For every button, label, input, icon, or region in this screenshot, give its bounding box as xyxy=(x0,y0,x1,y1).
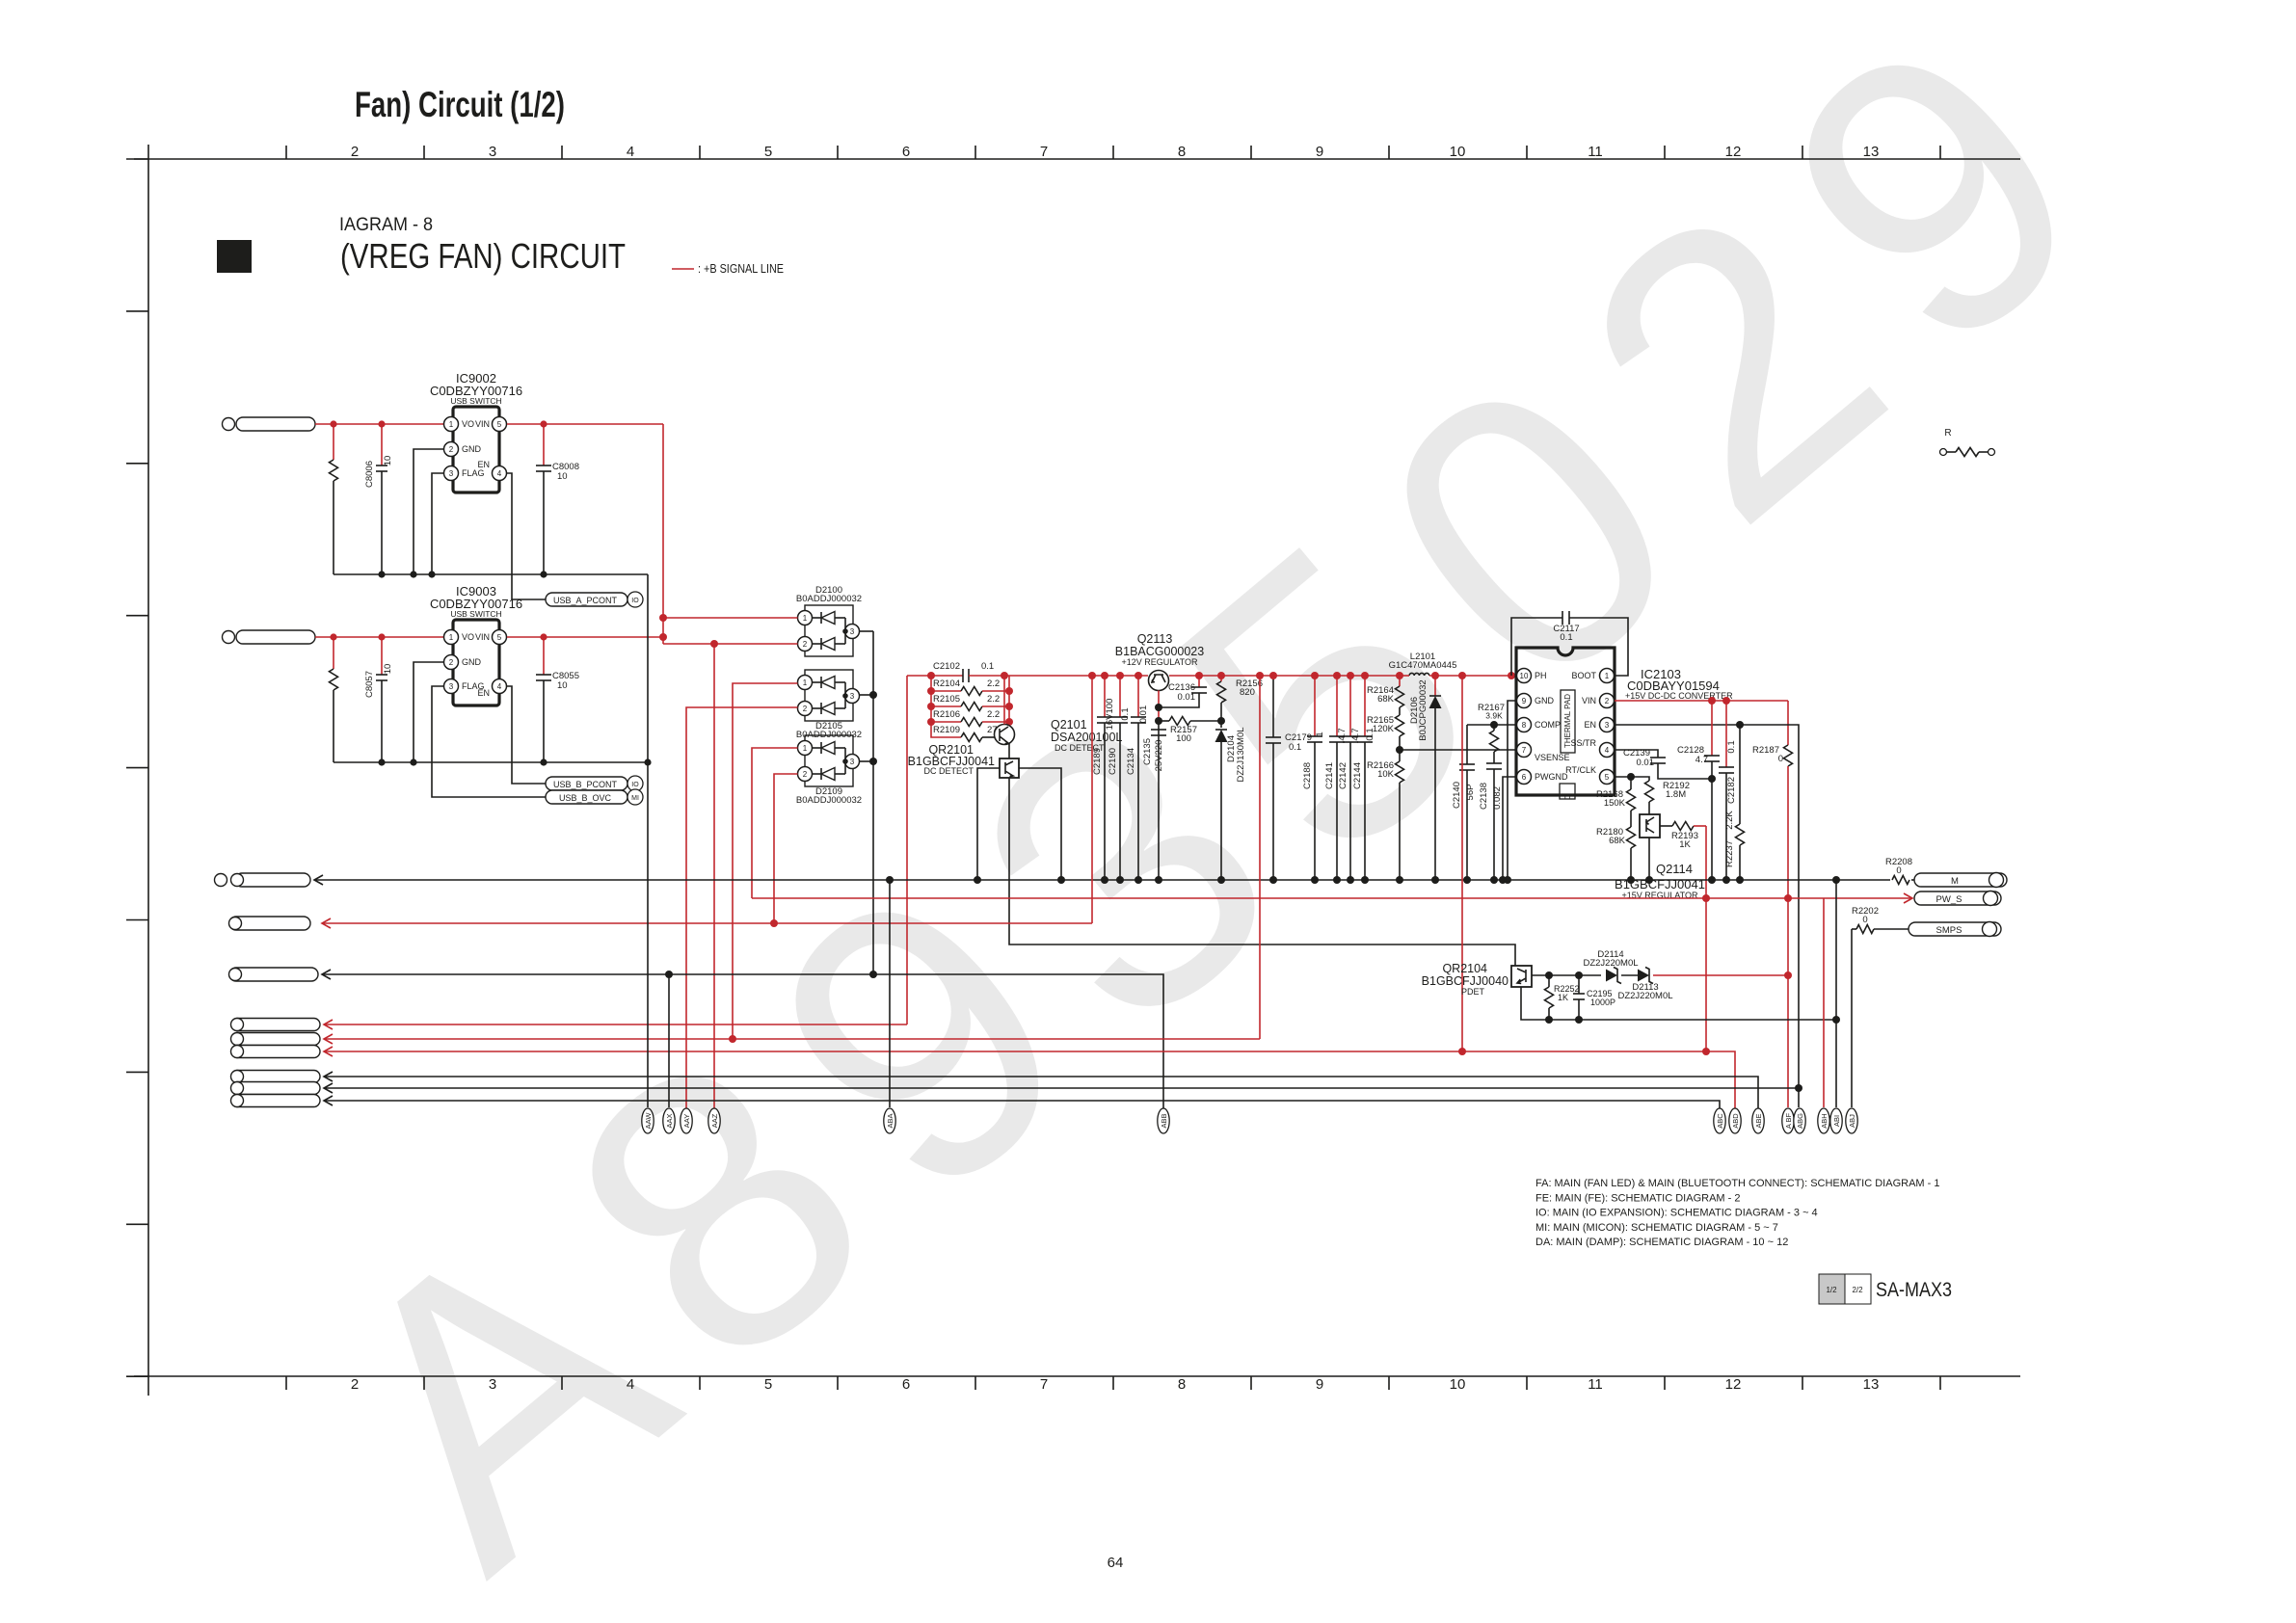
wire IC9002 pin2 GND down xyxy=(414,449,443,574)
svg-text:VIN: VIN xyxy=(1582,696,1596,705)
svg-text:ABH: ABH xyxy=(1820,1113,1829,1128)
svg-text:C8057: C8057 xyxy=(364,671,375,698)
svg-text:AAZ: AAZ xyxy=(710,1113,719,1128)
capacitor C2190 xyxy=(1119,676,1121,717)
svg-text:MI: MAIN (MICON): SCHEMATIC DI: MI: MAIN (MICON): SCHEMATIC DIAGRAM - 5 … xyxy=(1535,1222,1778,1234)
IC9003 pin 5 VIN xyxy=(493,630,507,645)
wire row 1078 red xyxy=(324,1034,333,1044)
node C8008 xyxy=(540,420,547,427)
wire rail to PH pin xyxy=(1455,675,1516,677)
svg-text:ABI: ABI xyxy=(1832,1115,1841,1127)
inductor L2101 xyxy=(1409,673,1429,676)
node bus 1364 xyxy=(1311,876,1319,884)
svg-text:USB_B_OVC: USB_B_OVC xyxy=(559,793,612,803)
svg-text:2: 2 xyxy=(449,658,454,667)
svg-text:0.1: 0.1 xyxy=(981,661,994,672)
node bus 1559 xyxy=(1499,876,1507,884)
svg-text:6: 6 xyxy=(902,144,910,160)
svg-text:FE: MAIN (FE): SCHEMATIC DIAGR: FE: MAIN (FE): SCHEMATIC DIAGRAM - 2 xyxy=(1535,1192,1740,1204)
op-amp U IC2103 body xyxy=(1516,648,1615,795)
node R2156 R2157 xyxy=(1217,717,1225,725)
svg-text:PWGND: PWGND xyxy=(1535,772,1568,782)
connector pill PW_S xyxy=(1914,891,2001,905)
svg-text:2/2: 2/2 xyxy=(1852,1286,1863,1294)
svg-text:DA: MAIN (DAMP): SCHEMATIC DIA: DA: MAIN (DAMP): SCHEMATIC DIAGRAM - 10 … xyxy=(1535,1237,1788,1248)
svg-text:SA-MAX3: SA-MAX3 xyxy=(1876,1279,1952,1301)
wire row A riser xyxy=(1091,676,1093,923)
svg-text:2.2: 2.2 xyxy=(987,694,1000,705)
wire QR2101 emitter to QR2104 xyxy=(1009,778,1515,966)
IC9002 ground bus xyxy=(334,573,648,575)
node C2141 rail xyxy=(1333,672,1341,679)
wire VIN riser to PW_S xyxy=(1787,701,1789,745)
resistor R2180 xyxy=(1627,827,1636,848)
wire IC9003 pin5 VIN from +B xyxy=(507,636,663,638)
svg-text:4: 4 xyxy=(497,682,502,691)
svg-text:9: 9 xyxy=(1316,1376,1323,1393)
capacitor C8006 xyxy=(381,424,383,466)
node bus 1522 xyxy=(1463,876,1471,884)
svg-text:VIN: VIN xyxy=(475,419,490,429)
node row 1011 diode bus xyxy=(869,971,877,978)
svg-text:0: 0 xyxy=(1862,915,1867,925)
svg-text:3: 3 xyxy=(850,692,855,701)
tag ABE xyxy=(1752,1108,1764,1133)
capacitor C2141 xyxy=(1336,676,1338,736)
node RT/CLK xyxy=(1627,773,1635,781)
wire IC9002 pin3 FLAG down xyxy=(432,473,443,574)
svg-text:3: 3 xyxy=(449,682,454,691)
svg-text:C2190: C2190 xyxy=(1108,748,1118,775)
svg-text:4.7: 4.7 xyxy=(1695,755,1708,765)
tag AAY xyxy=(681,1108,692,1133)
svg-text:R2237: R2237 xyxy=(1724,840,1735,867)
node bus 1805 xyxy=(1736,876,1744,884)
capacitor C8057 xyxy=(381,637,383,675)
IC2103 pin 1 BOOT xyxy=(1600,669,1615,683)
IC9003 ground bus xyxy=(334,761,648,763)
black square marker xyxy=(217,240,252,273)
wire ABI riser xyxy=(1835,880,1837,1107)
svg-text:C8006: C8006 xyxy=(364,461,375,488)
wire VBUS-B to IC9003 pin1 xyxy=(315,636,443,638)
node bus 1711 xyxy=(1645,876,1653,884)
capacitor C2189 xyxy=(1104,676,1106,717)
node gnd C8006 xyxy=(378,571,385,577)
svg-text:3: 3 xyxy=(850,627,855,636)
svg-text:68K: 68K xyxy=(1377,694,1395,705)
resistor R2192 xyxy=(1631,777,1649,781)
connector pill row 1117 xyxy=(231,1071,320,1083)
svg-text:EN: EN xyxy=(477,460,490,469)
wire row 1078 riser xyxy=(1259,676,1261,1039)
svg-text:C2140: C2140 xyxy=(1452,782,1462,809)
node C2142 rail xyxy=(1347,672,1354,679)
svg-text:T1: T1 xyxy=(1562,793,1572,802)
node bus 1146 xyxy=(1101,876,1108,884)
wire QR2104 base row xyxy=(1532,974,1601,976)
svg-text:VO: VO xyxy=(462,632,474,642)
svg-text:QR2104: QR2104 xyxy=(1442,962,1487,975)
svg-text:8: 8 xyxy=(1178,1376,1186,1393)
svg-text:THERMAL PAD: THERMAL PAD xyxy=(1563,694,1572,748)
svg-text:BOOT: BOOT xyxy=(1571,671,1596,680)
svg-text:13: 13 xyxy=(1863,1376,1880,1393)
IC9002 pin 5 VIN xyxy=(493,417,507,432)
node gnd flag xyxy=(428,571,435,577)
node bus 923 xyxy=(886,876,894,884)
capacitor C2134 xyxy=(1137,676,1139,717)
IC9003 pin 2 GND xyxy=(444,655,459,670)
svg-text:120K: 120K xyxy=(1373,724,1395,734)
svg-text:EN: EN xyxy=(1584,720,1596,730)
connector pill row 1091 xyxy=(231,1046,320,1058)
svg-text:2: 2 xyxy=(1605,697,1610,705)
resistor R2164 xyxy=(1399,676,1401,686)
node bus 1101 xyxy=(1057,876,1065,884)
wire D2105 pin2 to AAY xyxy=(686,707,798,1108)
capacitor C2128 xyxy=(1711,701,1713,756)
svg-text:AAX: AAX xyxy=(665,1113,674,1128)
svg-text:ABE: ABE xyxy=(1754,1113,1763,1128)
svg-text:VIN: VIN xyxy=(475,632,490,642)
svg-text:820: 820 xyxy=(1240,687,1255,698)
svg-text:0.01: 0.01 xyxy=(1178,692,1196,703)
node row A D2109 xyxy=(770,919,778,927)
svg-text:R2187: R2187 xyxy=(1752,745,1779,756)
resistor R2105 xyxy=(927,703,935,710)
connector pill row 1129 xyxy=(231,1082,320,1095)
wire D2100 pin2 feed xyxy=(663,643,798,645)
node row 1078 rail xyxy=(1256,672,1264,679)
IC2103 T1 pad xyxy=(1560,784,1575,799)
node COMP R2167 xyxy=(1490,721,1498,729)
svg-text:1/2: 1/2 xyxy=(1826,1286,1837,1294)
wire row 1142 xyxy=(324,1096,333,1105)
wire RT/CLK pin5 xyxy=(1615,776,1631,778)
svg-text:56P: 56P xyxy=(1465,785,1476,801)
svg-text:2.2K: 2.2K xyxy=(1724,811,1735,830)
resistor R2193 xyxy=(1660,825,1672,827)
wire QR2101 right pin to bus xyxy=(1019,768,1061,880)
svg-text:PDET: PDET xyxy=(1461,987,1485,997)
svg-text:MI: MI xyxy=(631,795,639,802)
connector pill USB-A power input xyxy=(236,417,315,431)
svg-text:0.1: 0.1 xyxy=(1120,707,1131,720)
IC2103 pin 4 SS/TR xyxy=(1600,743,1615,758)
resistor R2167 xyxy=(1493,725,1495,731)
svg-text:GND: GND xyxy=(462,444,482,454)
svg-text:B1BACG000023: B1BACG000023 xyxy=(1115,645,1204,658)
capacitor C8055 xyxy=(543,637,545,675)
capacitor C2138 xyxy=(1486,762,1502,764)
node bus 1776 xyxy=(1708,876,1716,884)
wire AAZ riser xyxy=(713,644,715,1108)
tag ABI xyxy=(1830,1108,1842,1133)
svg-text:7: 7 xyxy=(1040,1376,1048,1393)
node bus 1550 xyxy=(1490,876,1498,884)
node PW_S R2187 xyxy=(1784,894,1792,902)
node C2144 rail xyxy=(1361,672,1369,679)
svg-text:ABG: ABG xyxy=(1796,1113,1804,1129)
capacitor C2135 xyxy=(1151,729,1166,731)
node VSENSE divider xyxy=(1396,746,1403,754)
node C2136 rail xyxy=(1195,672,1203,679)
connector pill row 1011 xyxy=(229,968,318,981)
svg-text:2: 2 xyxy=(449,445,454,454)
svg-text:1: 1 xyxy=(803,678,808,687)
svg-text:8: 8 xyxy=(1178,144,1186,160)
capacitor C2102 xyxy=(962,669,964,682)
svg-text:DZ2J130M0L: DZ2J130M0L xyxy=(1236,727,1246,782)
svg-text:IO: IO xyxy=(631,782,639,788)
IC9002 pin 4 EN xyxy=(493,466,507,481)
left border xyxy=(147,145,149,1396)
node IC9003 VIN feed xyxy=(659,633,667,641)
svg-text:10: 10 xyxy=(557,680,568,691)
svg-text:4: 4 xyxy=(497,469,502,478)
svg-text:2: 2 xyxy=(803,640,808,649)
resistor R2187 xyxy=(1784,745,1793,766)
main bus wire xyxy=(314,875,323,885)
node row A rail xyxy=(1088,672,1096,679)
node VIN C2128 xyxy=(1708,697,1716,705)
diode D2109 xyxy=(805,735,853,786)
svg-text:1: 1 xyxy=(803,744,808,753)
resistor R2252 xyxy=(1548,975,1550,987)
svg-text:0.01: 0.01 xyxy=(1637,758,1655,768)
resistor R2104 xyxy=(927,687,935,695)
wire row 1063 red xyxy=(324,1020,333,1029)
tag ABF xyxy=(1782,1108,1794,1133)
node EN R2237 xyxy=(1736,721,1744,729)
wire QR2104 emitter bottom xyxy=(1521,987,1836,1020)
svg-text:10: 10 xyxy=(1450,1376,1466,1393)
wire COMP xyxy=(1467,724,1516,726)
svg-text:3: 3 xyxy=(489,144,496,160)
svg-text:9: 9 xyxy=(1316,144,1323,160)
capacitor C2140 xyxy=(1466,725,1468,764)
svg-text:A BF: A BF xyxy=(1784,1112,1793,1129)
wire Q2101 collector xyxy=(1003,676,1005,725)
wire ABH riser xyxy=(1823,898,1825,1107)
svg-text:Q2101: Q2101 xyxy=(1051,718,1087,732)
capacitor C2179 xyxy=(1272,676,1274,737)
resistor R2202 xyxy=(1852,928,1856,930)
bottom ruler xyxy=(134,1375,2020,1377)
svg-text:10: 10 xyxy=(383,664,393,675)
svg-text:1: 1 xyxy=(1605,672,1610,680)
top ruler xyxy=(134,158,2020,160)
wire +15V PW_S line xyxy=(752,897,1912,899)
signal pill USB_B_PCONT xyxy=(546,777,627,790)
wire stub bus right xyxy=(1008,676,1010,722)
svg-text:EN: EN xyxy=(477,688,490,698)
+B 12V rail xyxy=(1009,675,1148,677)
node stub bus top xyxy=(927,672,935,679)
svg-text:1K: 1K xyxy=(1679,839,1691,850)
svg-text:12: 12 xyxy=(1725,144,1742,160)
svg-text:4: 4 xyxy=(627,1376,634,1393)
tag ABD xyxy=(1729,1108,1741,1133)
svg-text:3.9K: 3.9K xyxy=(1485,711,1503,721)
resistor R2106 xyxy=(927,718,935,726)
resistor (pull-down) USB-B xyxy=(333,637,334,669)
svg-text:VSENSE: VSENSE xyxy=(1535,753,1570,762)
diode D2100 xyxy=(805,605,853,656)
wire IC9003 pin3 FLAG to USB_B_OVC xyxy=(432,686,546,797)
node rail QR2104 riser xyxy=(1458,672,1466,679)
svg-text:5: 5 xyxy=(497,420,502,429)
svg-text:C2188: C2188 xyxy=(1302,762,1313,789)
node row 1129 EN xyxy=(1795,1084,1802,1092)
svg-text:RT/CLK: RT/CLK xyxy=(1565,765,1596,775)
svg-text:R2109: R2109 xyxy=(933,725,960,735)
node row 1091 sense xyxy=(1702,1048,1710,1055)
svg-text:2: 2 xyxy=(803,705,808,713)
wire ABJ riser xyxy=(1851,929,1853,1107)
svg-text:FLAG: FLAG xyxy=(462,468,485,478)
node C2188 rail xyxy=(1311,672,1319,679)
svg-text:5: 5 xyxy=(497,633,502,642)
wire row 1011 xyxy=(322,970,331,979)
svg-text:Q2113: Q2113 xyxy=(1137,632,1173,646)
transistor Q2113 xyxy=(1149,671,1169,691)
node bottom R2252 xyxy=(1545,1016,1553,1024)
svg-text:3: 3 xyxy=(850,758,855,766)
wire row 1129 xyxy=(324,1083,333,1093)
IC2103 pin 6 PWGND xyxy=(1517,770,1532,785)
node rail R2164 xyxy=(1396,672,1403,679)
tag ABJ xyxy=(1846,1108,1857,1133)
svg-text:3: 3 xyxy=(489,1376,496,1393)
svg-text:ABB: ABB xyxy=(1160,1113,1168,1128)
wire QR2101 base left to bus xyxy=(977,768,1000,880)
svg-text:8: 8 xyxy=(1522,721,1527,730)
wire row A red xyxy=(322,918,331,928)
svg-text:1: 1 xyxy=(1315,732,1325,736)
capacitor C2195 xyxy=(1578,975,1580,994)
wire AAX riser xyxy=(668,974,670,1107)
svg-text:10: 10 xyxy=(1520,672,1529,680)
node D2100 pin1 feed xyxy=(659,614,667,622)
svg-text:B1GBCFJJ0040: B1GBCFJJ0040 xyxy=(1422,974,1508,988)
tag AAZ xyxy=(708,1108,720,1133)
resistor R2157 xyxy=(1159,720,1169,722)
node D2113 out xyxy=(1784,971,1792,979)
svg-text:68K: 68K xyxy=(1609,836,1626,846)
svg-text:+15V DC-DC CONVERTER: +15V DC-DC CONVERTER xyxy=(1625,691,1733,701)
wire row 1117 xyxy=(324,1072,333,1081)
zener D2114 xyxy=(1606,970,1617,982)
node rail D2106 xyxy=(1431,672,1439,679)
node VBUS-A R branch xyxy=(330,420,336,427)
node row 1078 D2105 xyxy=(729,1035,736,1043)
svg-text:IAGRAM - 8: IAGRAM - 8 xyxy=(339,215,433,235)
svg-text:4: 4 xyxy=(627,144,634,160)
svg-text:USB SWITCH: USB SWITCH xyxy=(450,396,501,406)
IC9002 box xyxy=(453,407,499,492)
wire stub bus xyxy=(930,676,932,722)
node C2134 rail xyxy=(1135,672,1142,679)
svg-text:3: 3 xyxy=(1605,721,1610,730)
svg-text:4.7: 4.7 xyxy=(1337,728,1348,740)
svg-text:4: 4 xyxy=(1605,746,1610,755)
svg-text:R2106: R2106 xyxy=(933,709,960,720)
svg-text:5: 5 xyxy=(764,144,772,160)
wire IC9002 pin5 VIN to +B xyxy=(507,423,663,425)
wire EN pin3 xyxy=(1615,725,1799,1107)
node bus 1181 xyxy=(1135,876,1142,884)
svg-text:1: 1 xyxy=(449,420,454,429)
node row 1091 qr riser xyxy=(1458,1048,1466,1055)
svg-text:C2182: C2182 xyxy=(1726,777,1737,804)
svg-text:AAY: AAY xyxy=(682,1114,691,1128)
svg-text:0.01: 0.01 xyxy=(1138,705,1149,724)
wire D2105 pin1 to row B xyxy=(733,683,798,1039)
IC9003 pin 4 EN xyxy=(493,679,507,694)
resistor R2237 xyxy=(1739,725,1741,824)
svg-text:1: 1 xyxy=(803,614,808,623)
svg-text:25V220: 25V220 xyxy=(1154,740,1164,772)
resistor R2166 xyxy=(1399,750,1401,761)
svg-text:R2104: R2104 xyxy=(933,678,960,689)
svg-text:12: 12 xyxy=(1725,1376,1742,1393)
zener D2113 xyxy=(1638,970,1649,982)
svg-text:ABD: ABD xyxy=(1731,1113,1740,1129)
svg-text:FA: MAIN (FAN LED) & MAIN (BLU: FA: MAIN (FAN LED) & MAIN (BLUETOOTH CON… xyxy=(1535,1178,1939,1189)
node PW_S sense xyxy=(1702,894,1710,902)
IC9003 box xyxy=(453,620,499,705)
tag ABG xyxy=(1794,1108,1805,1133)
node Q2101 collector rail xyxy=(1001,672,1008,679)
svg-text:4.7: 4.7 xyxy=(1350,728,1361,740)
svg-text:6: 6 xyxy=(902,1376,910,1393)
node bus 1905 xyxy=(1832,876,1840,884)
node bus 1267 xyxy=(1217,876,1225,884)
resistor R2208 xyxy=(1892,876,1909,885)
sheet index box xyxy=(1819,1274,1845,1304)
tag ABB xyxy=(1158,1108,1169,1133)
wire SS/TR C2139 xyxy=(1615,750,1658,758)
IC2103 pin 9 GND xyxy=(1517,694,1532,708)
svg-text:C2144: C2144 xyxy=(1352,762,1363,789)
node R2157 join xyxy=(1155,717,1162,725)
wire +B to QR2104 area xyxy=(1461,676,1463,1051)
resistor (pull-down) USB-A xyxy=(333,424,334,460)
svg-text:DZ2J220M0L: DZ2J220M0L xyxy=(1617,991,1672,1001)
connector pill SMPS xyxy=(1909,922,2001,936)
svg-text:0.1: 0.1 xyxy=(1560,632,1572,643)
svg-text:10K: 10K xyxy=(1377,769,1395,780)
node C8055 xyxy=(540,633,547,640)
svg-text:G1C470MA0445: G1C470MA0445 xyxy=(1389,660,1457,671)
node gnd2 to AAW xyxy=(644,758,651,765)
svg-text:Q2114: Q2114 xyxy=(1656,862,1693,876)
wire +B rail corner xyxy=(906,676,908,1024)
resistor R2168 xyxy=(1630,777,1632,789)
node VIN C2182 xyxy=(1722,697,1730,705)
svg-text:DSA200100L: DSA200100L xyxy=(1051,731,1122,744)
IC9003 pin 3 FLAG xyxy=(444,679,459,694)
node C2179 rail xyxy=(1269,672,1277,679)
resistor R2165 xyxy=(1396,715,1404,736)
node bus 1452 xyxy=(1396,876,1403,884)
opto transistor Q2114 xyxy=(1640,814,1660,838)
svg-text:C2138: C2138 xyxy=(1479,783,1489,810)
svg-text:IO: IO xyxy=(631,598,639,604)
wire diode outputs bus xyxy=(860,630,874,632)
